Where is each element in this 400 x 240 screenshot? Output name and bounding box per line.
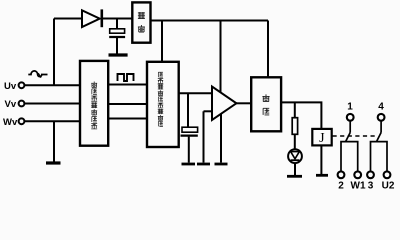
relay coil J box — [312, 129, 331, 146]
ground under relay coil — [316, 174, 328, 177]
op-amp comparator — [212, 87, 236, 121]
svg-text:U2: U2 — [382, 181, 395, 192]
wire diode cathode to regulator input — [103, 18, 132, 20]
wire op-amp output to drive block — [236, 102, 252, 104]
svg-text:4: 4 — [378, 102, 384, 113]
wire top rail from node above Uv to diode anode — [54, 18, 82, 20]
input terminal Wv — [19, 118, 25, 124]
svg-text:Uv: Uv — [4, 81, 17, 92]
shaper/display block — [80, 61, 108, 146]
regulator label glyphs — [138, 12, 145, 32]
bottom terminal W1 — [354, 171, 361, 178]
wire PLL output to op-amp input+ — [179, 92, 212, 94]
svg-text:Wv: Wv — [3, 117, 18, 128]
wire Wv line to ground — [53, 121, 55, 161]
switch 2 common stub — [380, 121, 382, 133]
input terminal Vv — [19, 101, 25, 107]
capacitor C2 symbol — [181, 127, 198, 135]
bottom terminal 3 — [367, 171, 374, 178]
relay coil bottom lead — [320, 145, 322, 174]
square wave symbol — [118, 74, 134, 81]
svg-text:Vv: Vv — [5, 99, 17, 110]
capacitor C2 bottom lead — [188, 137, 190, 163]
bottom terminal 2 — [338, 171, 345, 178]
diode D1 — [82, 9, 102, 27]
fuse / AC squiggle on Uv line — [28, 71, 47, 77]
regulator block (wen ya) — [132, 2, 150, 42]
shaper block label glyphs — [91, 82, 97, 129]
wire shaper to PLL line 3 — [108, 118, 147, 120]
PLL phase-sequence detect block — [147, 62, 179, 147]
wire input Wv line — [25, 120, 81, 122]
ground under op-amp input- — [197, 163, 210, 166]
wire drop from rail into drive block top — [267, 21, 269, 78]
ground under Wv line — [46, 161, 61, 164]
svg-text:J: J — [319, 131, 325, 146]
wire shaper to PLL line 1 — [108, 84, 147, 86]
switch 1 common stub — [349, 121, 351, 133]
capacitor C1 — [109, 29, 125, 37]
wire rail drop to PLL block top — [161, 21, 163, 62]
resistor R1 top lead — [294, 102, 296, 117]
svg-text:3: 3 — [368, 181, 374, 192]
svg-text:W1: W1 — [351, 181, 366, 192]
wire shaper to PLL line 2 — [108, 103, 147, 105]
capacitor C1 top lead — [116, 19, 118, 29]
wire drive block output to relay corner — [281, 102, 321, 128]
resistor R1 — [292, 118, 297, 135]
switch 1 lever — [346, 133, 350, 142]
capacitor C1 bottom lead — [116, 38, 118, 54]
bottom terminal U2 — [384, 171, 391, 178]
wire regulator output top rail to drive-block drop — [151, 20, 269, 22]
ground under capacitor C2 — [182, 163, 196, 166]
capacitor C2 top lead — [187, 93, 189, 127]
ground under op-amp V- — [215, 163, 228, 166]
wire op-amp V- to ground — [220, 114, 222, 163]
svg-text:1: 1 — [347, 102, 353, 113]
ground under capacitor C1 — [109, 53, 128, 56]
wire rail drop to op-amp V+ — [220, 21, 222, 94]
contact terminal 1 — [347, 114, 354, 121]
input terminal Uv — [19, 82, 25, 88]
switch 2 contact bracket — [371, 142, 388, 171]
LED indicator — [288, 149, 302, 163]
switch 1 contact bracket — [341, 142, 358, 171]
wire op-amp input- to ground — [203, 111, 205, 162]
switch 2 lever — [377, 133, 381, 142]
drive block label glyphs — [262, 94, 269, 115]
wire vertical from rail down to Uv line — [53, 19, 55, 86]
wire op-amp input- stub — [204, 110, 213, 112]
drive block — [251, 77, 281, 131]
dashed mechanical link from J to contacts — [333, 135, 378, 137]
wire input Uv line — [25, 84, 81, 86]
PLL block label glyphs — [158, 72, 163, 126]
wire input Vv line — [25, 103, 81, 105]
svg-text:2: 2 — [338, 181, 344, 192]
ground under LED — [287, 175, 302, 178]
LED bottom lead — [294, 163, 296, 175]
resistor R1 bottom lead — [294, 134, 296, 149]
contact terminal 4 — [378, 114, 385, 121]
